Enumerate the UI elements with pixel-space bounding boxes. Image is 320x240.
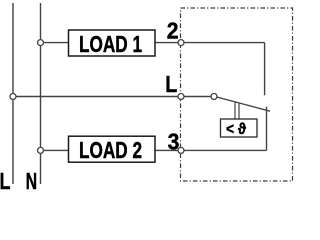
- thermostat element box with < theta: [221, 119, 258, 138]
- wire: LOAD 2 to terminal 3 and across: [155, 149, 267, 151]
- node: terminal on N bus (top, to LOAD 1): [38, 40, 44, 46]
- svg-text:L: L: [0, 168, 11, 194]
- svg-text:N: N: [26, 168, 37, 194]
- dashed enclosure (thermostat unit): [181, 8, 293, 181]
- actuator link (double line): [234, 102, 236, 119]
- svg-text:2: 2: [167, 17, 179, 43]
- node: terminal 2: [178, 40, 184, 46]
- node: switch pivot: [211, 94, 217, 100]
- wire: vertical from fixed contact down to terminal-3 wire: [266, 107, 268, 151]
- node: terminal on L bus (middle): [10, 94, 16, 100]
- switch blade (S1): [217, 97, 270, 111]
- svg-text:LOAD 2: LOAD 2: [79, 137, 142, 163]
- svg-text:LOAD 1: LOAD 1: [79, 31, 142, 57]
- svg-text:L: L: [165, 71, 177, 97]
- node: terminal 3: [178, 147, 184, 153]
- wire: L bus vertical: [12, 3, 14, 184]
- node: terminal L: [178, 94, 184, 100]
- wire: LOAD 1 to terminal 2 and across to right drop: [155, 42, 265, 44]
- svg-text:< ϑ: < ϑ: [226, 121, 247, 138]
- resistor LOAD 2 box: [69, 136, 156, 163]
- wire: N bus to LOAD 2: [41, 149, 69, 151]
- node: terminal on N bus (bottom, to LOAD 2): [38, 147, 44, 153]
- resistor LOAD 1 box: [69, 30, 156, 57]
- wire: L bus to terminal L to switch pivot: [13, 96, 214, 98]
- wire: N bus to LOAD 1: [41, 42, 69, 44]
- wire: vertical drop from terminal-2 wire to switch contact: [264, 43, 266, 96]
- wire: N bus vertical: [40, 3, 42, 184]
